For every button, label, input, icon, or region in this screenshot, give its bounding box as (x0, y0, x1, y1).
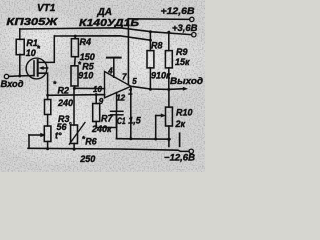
svg-text:Выход: Выход (170, 76, 203, 87)
transistor VT1 gate bar (33, 61, 35, 76)
resistor R6 (trimmer, diagonal arrow) (71, 125, 78, 144)
wire: bottom rail to -12.6V (28, 148, 189, 151)
wire: output from op-amp (131, 86, 169, 89)
wire: rail B from FET drain corner to R8 column (54, 36, 150, 40)
svg-text:250: 250 (79, 154, 95, 164)
paper light patches (0, 75, 130, 165)
wire R2 to R3 (47, 115, 49, 127)
wire: node to op-amp pin 10 (75, 87, 105, 89)
svg-text:+12,6В: +12,6В (161, 6, 195, 17)
resistor R3 (rheostat) (44, 126, 51, 142)
resistor R2 (45, 100, 51, 115)
wire: +12.6V rail (128, 18, 189, 21)
svg-text:°: ° (69, 121, 72, 129)
svg-text:10: 10 (93, 85, 102, 94)
pin 7 wire from +12.6V (127, 19, 129, 85)
transistor VT1 substrate arrow (42, 67, 48, 69)
svg-text:R7: R7 (101, 114, 113, 124)
wire: input to gate (9, 75, 34, 78)
svg-text:5: 5 (132, 77, 137, 86)
op-amp U1 triangle (105, 72, 132, 98)
svg-text:КП305Ж: КП305Ж (6, 16, 59, 28)
svg-text:R6: R6 (85, 137, 97, 147)
resistor R1 (19, 29, 21, 39)
resistor R5 (71, 66, 78, 86)
resistor R10 (trimmer) (168, 89, 170, 107)
node: R5 bottom (73, 87, 76, 90)
R3 wiper arrow (29, 134, 41, 136)
resistor R7 (93, 104, 100, 122)
svg-text:7: 7 (122, 73, 127, 82)
transistor VT1 body (26, 58, 47, 79)
svg-text:150: 150 (80, 52, 95, 62)
svg-text:240: 240 (57, 98, 73, 108)
resistor R8 (149, 30, 152, 33)
svg-text:1,5: 1,5 (128, 116, 142, 126)
terminal +3.6V (192, 33, 196, 37)
terminal -12.6V (189, 149, 193, 153)
transistor VT1 channel bar (37, 60, 39, 76)
svg-text:1: 1 (128, 88, 133, 97)
svg-text:9: 9 (99, 97, 104, 106)
svg-text:Вход: Вход (1, 79, 24, 90)
svg-text:t°: t° (55, 130, 62, 140)
svg-text:15к: 15к (175, 57, 190, 67)
node: R6 bottom on rail (73, 148, 76, 151)
input terminal Вход (4, 74, 8, 78)
node A: gate/R1 junction (18, 74, 21, 77)
svg-text:12: 12 (116, 93, 125, 102)
capacitor C1 (116, 93, 118, 112)
svg-text:R2: R2 (58, 86, 70, 96)
R10 wiper arrow (156, 115, 163, 117)
resistor R4 (74, 36, 76, 39)
pin 1 wire (130, 88, 132, 139)
node: R3 bottom on rail (46, 147, 49, 150)
svg-text:R4: R4 (80, 37, 92, 47)
svg-text:R9: R9 (176, 47, 188, 57)
terminal +12.6V (190, 17, 194, 21)
svg-text:+3,6В: +3,6В (172, 23, 198, 34)
output arrow Выход (169, 88, 184, 91)
wire W1 correction/balance (116, 138, 170, 141)
svg-text:4: 4 (107, 67, 113, 76)
wire: rail A (+3.6V) from R1 top across to terminal (20, 28, 192, 35)
transistor VT1 drain lead (39, 36, 55, 62)
svg-text:R10: R10 (176, 108, 193, 118)
svg-text:10: 10 (26, 48, 36, 58)
svg-text:2к: 2к (175, 119, 186, 129)
transistor VT1 source lead (39, 73, 48, 99)
svg-text:R8: R8 (151, 41, 163, 51)
svg-text:−12,6В: −12,6В (164, 153, 195, 164)
wire: R6 top (73, 88, 75, 125)
svg-text:910: 910 (78, 70, 93, 80)
wire: pin 9 / R7 top (48, 94, 105, 97)
svg-text:240к: 240к (91, 124, 112, 134)
svg-text:ДА: ДА (97, 7, 112, 18)
svg-text:К140УД1Б: К140УД1Б (79, 18, 139, 29)
artifact bar near R10 bottom (179, 133, 181, 146)
svg-text:910к: 910к (151, 71, 171, 81)
resistor R9 (167, 31, 170, 34)
svg-text:VT1: VT1 (37, 3, 56, 14)
pin 4 with T-bar (113, 59, 115, 78)
svg-text:С1: С1 (117, 116, 126, 126)
